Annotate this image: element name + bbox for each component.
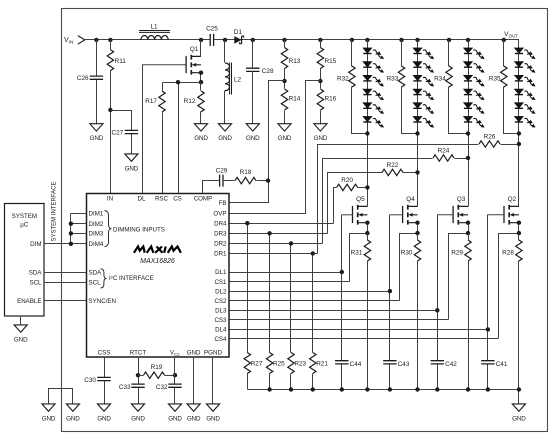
wire R11 to IN pin <box>110 40 112 194</box>
svg-text:C27: C27 <box>111 130 123 137</box>
wire R20 to drain and to DR4 <box>334 188 368 224</box>
resistor R20 (drain sense, from DR4) <box>337 177 358 191</box>
svg-text:R13: R13 <box>289 58 301 65</box>
inductor L1 <box>139 24 170 40</box>
svg-text:FB: FB <box>219 200 227 207</box>
junction dots Q2 source <box>517 221 521 225</box>
svg-text:OVP: OVP <box>213 210 226 217</box>
wire Q1 gate to DL pin <box>142 65 144 194</box>
svg-text:R17: R17 <box>145 98 157 105</box>
wire Q5 source and CS sense <box>350 223 368 282</box>
wire DL4 bus <box>229 329 488 331</box>
resistor R27 <box>244 353 263 374</box>
node RTCT junction <box>136 373 140 377</box>
resistor R14 <box>281 89 300 110</box>
wire DL2 bus <box>229 291 390 293</box>
svg-text:PGND: PGND <box>204 350 222 357</box>
svg-text:Q5: Q5 <box>356 196 365 203</box>
wire R15/R16 <box>320 40 322 124</box>
wire R32 leads <box>352 40 368 134</box>
System microcontroller box <box>5 204 45 317</box>
svg-text:COMP: COMP <box>194 196 213 203</box>
wire R22 to drain and to DR3 <box>328 173 418 234</box>
ground (left tap 1) <box>42 404 56 422</box>
svg-text:R19: R19 <box>151 364 163 371</box>
node DR junction <box>289 241 293 245</box>
ground (C30) <box>97 404 111 422</box>
capacitor C32 <box>156 384 182 391</box>
junction dots Q1 source <box>199 71 203 75</box>
LED string 3 (6 LEDs) <box>464 48 486 129</box>
svg-text:GND: GND <box>14 336 28 343</box>
node string 3 bottom junction <box>466 131 470 135</box>
svg-text:DL4: DL4 <box>215 327 227 334</box>
ground (C26) <box>90 124 104 142</box>
wire LED string 2 vertical <box>417 40 419 207</box>
wire R31 to ground rail <box>367 234 369 390</box>
resistor R23 <box>288 353 307 374</box>
svg-text:C33: C33 <box>119 384 131 391</box>
svg-text:DL2: DL2 <box>215 288 227 295</box>
wire VIN to C26 <box>96 40 98 124</box>
wire SCL <box>44 282 87 284</box>
svg-text:MAX16826: MAX16826 <box>140 258 175 265</box>
wire DL1 bus <box>229 272 342 274</box>
resistor R33 (string ballast) <box>387 66 405 87</box>
wire RTCT to C33 <box>138 357 140 404</box>
svg-text:SDA: SDA <box>29 270 43 277</box>
wire ground rail <box>248 390 519 404</box>
svg-text:R29: R29 <box>451 249 463 256</box>
svg-text:DR1: DR1 <box>214 251 227 258</box>
svg-text:DIM2: DIM2 <box>89 221 104 228</box>
svg-text:DL: DL <box>138 196 146 203</box>
capacitor C29 <box>216 168 228 187</box>
resistor R26 (drain sense, from DR1) <box>479 134 500 148</box>
svg-text:µC: µC <box>20 222 29 229</box>
svg-text:DIM1: DIM1 <box>89 210 104 217</box>
svg-text:R32: R32 <box>337 75 349 82</box>
wire DR branch at x=312.8 <box>312 254 314 390</box>
node string 1 bottom junction <box>365 131 369 135</box>
wire DR branch at x=247.3 <box>247 224 249 390</box>
wire R24 to drain and to DR2 <box>323 159 469 244</box>
wire Q1 drain to rail <box>200 40 202 57</box>
node OVP divider junction <box>318 79 322 83</box>
svg-text:I2C INTERFACE: I2C INTERFACE <box>109 275 154 282</box>
svg-text:DIMMING INPUTS: DIMMING INPUTS <box>113 226 165 233</box>
inductor L2 <box>225 63 242 95</box>
junction dots Q3 source <box>466 221 470 225</box>
capacitor C28 <box>246 68 274 75</box>
svg-text:IN: IN <box>107 196 113 203</box>
wire Q3 gate to DL3 and C42 <box>437 215 439 390</box>
svg-text:R27: R27 <box>251 361 263 368</box>
wire DR1 bus <box>229 253 318 255</box>
wire GND pin <box>193 357 195 404</box>
junction dots Q5 source <box>365 221 369 225</box>
wire LED string 4 vertical <box>518 48 520 207</box>
node DR junction <box>245 221 249 225</box>
wire DL3 bus <box>229 310 438 312</box>
svg-text:GND: GND <box>42 415 56 422</box>
wire Q3 source and CS sense <box>449 223 469 320</box>
wire R29 to ground rail <box>468 234 470 390</box>
wire CS3 bus <box>229 319 449 321</box>
node R22/drain junction <box>415 170 419 174</box>
transistor Q3 <box>437 196 468 224</box>
node DL3 gate junction <box>435 308 439 312</box>
capacitor C43 <box>383 361 410 368</box>
ground (C28) <box>246 124 260 142</box>
svg-text:C30: C30 <box>84 377 96 384</box>
svg-text:GND: GND <box>97 415 111 422</box>
transistor Q2 <box>488 196 519 224</box>
node R24/drain junction <box>466 156 470 160</box>
svg-text:CS2: CS2 <box>214 298 227 305</box>
svg-text:SYSTEM: SYSTEM <box>12 213 37 220</box>
transistor Q5 <box>342 196 368 224</box>
wire COMP network <box>203 181 269 194</box>
svg-text:L1: L1 <box>150 24 158 31</box>
wire L2 <box>224 40 226 124</box>
node R20/drain junction <box>365 185 369 189</box>
svg-text:GND: GND <box>131 415 145 422</box>
svg-text:Q3: Q3 <box>457 196 466 203</box>
wire R12 to ground <box>200 83 202 124</box>
node VIN <box>64 36 85 45</box>
wire CS2 bus <box>229 300 400 302</box>
svg-text:R26: R26 <box>484 134 496 141</box>
capacitor C27 <box>111 130 138 137</box>
svg-text:GND: GND <box>206 415 220 422</box>
resistor R19 <box>144 364 165 378</box>
svg-text:SDA: SDA <box>89 270 103 277</box>
diode D1 <box>234 29 244 44</box>
wire R13/R14 <box>284 40 286 124</box>
ground (C27) <box>125 154 139 172</box>
svg-text:SYNC/EN: SYNC/EN <box>89 298 117 305</box>
resistor R11 <box>107 50 126 71</box>
capacitor C41 <box>481 361 508 368</box>
capacitor C30 <box>84 377 110 384</box>
svg-text:GND: GND <box>187 350 201 357</box>
svg-text:CS: CS <box>173 196 182 203</box>
svg-text:R12: R12 <box>184 98 196 105</box>
svg-text:D1: D1 <box>234 29 243 36</box>
resistor R12 <box>184 91 205 112</box>
LED string 4 (6 LEDs) <box>514 48 536 129</box>
svg-text:CS4: CS4 <box>214 336 227 343</box>
svg-text:GND: GND <box>314 135 328 142</box>
svg-text:R21: R21 <box>316 361 328 368</box>
junction dots on ground rail <box>267 387 521 391</box>
svg-text:GND: GND <box>218 135 232 142</box>
svg-text:C32: C32 <box>156 384 168 391</box>
ground (R16) <box>314 124 328 142</box>
LED string 1 (6 LEDs) <box>363 48 385 129</box>
node string 4 bottom junction <box>517 131 521 135</box>
wire Q2 source and CS sense <box>499 223 519 339</box>
junction dots Q4 source <box>415 221 419 225</box>
svg-text:GND: GND <box>187 415 201 422</box>
resistor R25 <box>266 353 285 374</box>
wire Q4 source and CS sense <box>400 223 418 301</box>
node DL4 gate junction <box>486 327 490 331</box>
svg-text:R28: R28 <box>502 249 514 256</box>
capacitor C42 <box>431 361 458 368</box>
svg-text:R23: R23 <box>294 361 306 368</box>
svg-text:ENABLE: ENABLE <box>17 298 41 305</box>
capacitor C25 <box>206 26 218 46</box>
svg-text:R18: R18 <box>240 169 252 176</box>
svg-text:R20: R20 <box>341 177 353 184</box>
svg-text:DL3: DL3 <box>215 308 227 315</box>
svg-text:GND: GND <box>90 135 104 142</box>
svg-text:RSC: RSC <box>155 196 169 203</box>
node FB divider junction <box>282 79 286 83</box>
svg-text:C41: C41 <box>496 361 508 368</box>
svg-text:DIM4: DIM4 <box>89 241 104 248</box>
ground (R12) <box>194 124 208 142</box>
wire R26 to drain and to DR1 <box>318 145 519 254</box>
wire DR4 bus <box>229 223 334 225</box>
resistor R17 <box>145 91 165 112</box>
ground (R14) <box>278 124 292 142</box>
svg-text:GND: GND <box>194 135 208 142</box>
wire uC ground <box>20 316 22 325</box>
wire R35 leads <box>504 40 519 134</box>
svg-text:DIM3: DIM3 <box>89 231 104 238</box>
resistor R21 <box>310 353 329 374</box>
node C29/R18 to FB junction <box>266 178 270 182</box>
svg-text:C29: C29 <box>216 168 228 175</box>
wire DR3 bus <box>229 233 328 235</box>
resistor R28 (current sense) <box>502 240 522 261</box>
wire chassis ground taps <box>49 389 73 404</box>
wire CS4 bus <box>229 338 499 340</box>
wire DIM bus <box>44 214 87 244</box>
wire Q2 gate to DL4 and C41 <box>487 215 489 390</box>
ground (left tap 2) <box>66 404 80 422</box>
svg-text:L2: L2 <box>234 77 242 84</box>
junction dots DIM bus <box>69 222 73 226</box>
resistor R15 <box>317 48 336 69</box>
svg-text:GND: GND <box>66 415 80 422</box>
svg-text:GND: GND <box>512 415 526 422</box>
wire LED string 1 vertical <box>367 40 369 207</box>
svg-text:RTCT: RTCT <box>130 350 147 357</box>
node DL1 gate junction <box>340 270 344 274</box>
svg-text:DIM: DIM <box>30 241 41 248</box>
svg-text:DR4: DR4 <box>214 220 227 227</box>
wire ENABLE to SYNC/EN <box>44 300 87 302</box>
wire VCC to C32 <box>174 357 176 404</box>
svg-text:C44: C44 <box>350 361 362 368</box>
ground (uC) <box>14 325 28 343</box>
svg-text:GND: GND <box>278 135 292 142</box>
transistor Q1 <box>142 46 201 74</box>
junction dots on top rail <box>94 38 506 42</box>
node DR junction <box>267 231 271 235</box>
wire CSS to C30 <box>104 357 106 404</box>
svg-text:R16: R16 <box>325 95 337 102</box>
wire DR2 bus <box>229 243 323 245</box>
wire R34 leads <box>449 40 469 134</box>
wire to C27 <box>111 111 132 154</box>
svg-text:R11: R11 <box>115 58 127 65</box>
wire Q1 source node <box>163 73 201 194</box>
node string 2 bottom junction <box>415 131 419 135</box>
resistor R18 <box>235 169 256 184</box>
wire FB sense <box>229 81 285 203</box>
resistor R32 (string ballast) <box>337 66 355 87</box>
node DL2 gate junction <box>388 289 392 293</box>
svg-text:SCL: SCL <box>29 280 42 287</box>
node R19/VCC junction <box>173 373 177 377</box>
resistor R22 (drain sense, from DR3) <box>382 162 403 176</box>
capacitor C33 <box>119 384 145 391</box>
svg-text:C28: C28 <box>262 68 274 75</box>
node DR junction <box>311 251 315 255</box>
wire LED string 3 vertical <box>468 40 470 207</box>
svg-text:R25: R25 <box>273 361 285 368</box>
wire R17 to RSC pin <box>162 83 164 194</box>
svg-text:R30: R30 <box>401 249 413 256</box>
wire OVP sense <box>229 81 321 214</box>
wire R30 to ground rail <box>417 234 419 390</box>
svg-text:R24: R24 <box>438 148 450 155</box>
svg-text:R14: R14 <box>289 95 301 102</box>
resistor R35 (string ballast) <box>489 66 507 87</box>
node IN/C27 junction <box>108 108 112 112</box>
resistor R31 (current sense) <box>351 240 371 261</box>
svg-text:Q4: Q4 <box>406 196 415 203</box>
wire PGND pin <box>212 357 214 404</box>
ground (rail) <box>512 404 526 422</box>
transistor Q4 <box>390 196 418 224</box>
svg-text:C42: C42 <box>445 361 457 368</box>
resistor R24 (drain sense, from DR2) <box>433 148 454 162</box>
wire Q5 gate to DL1 and C44 <box>341 215 343 390</box>
ground (C32) <box>168 404 182 422</box>
resistor R29 (current sense) <box>451 240 471 261</box>
svg-text:CSS: CSS <box>98 350 111 357</box>
svg-text:Q1: Q1 <box>190 46 199 53</box>
resistor R30 (current sense) <box>401 240 421 261</box>
svg-text:GND: GND <box>125 165 139 172</box>
ground (GND pin) <box>187 404 201 422</box>
wire DR branch at x=291.0 <box>290 244 292 390</box>
svg-text:R22: R22 <box>387 162 399 169</box>
ground (C33) <box>131 404 145 422</box>
resistor R16 <box>317 89 336 110</box>
ground (PGND pin) <box>206 404 220 422</box>
svg-text:GND: GND <box>168 415 182 422</box>
wire VIN top rail to VOUT <box>85 40 519 48</box>
svg-text:CS3: CS3 <box>214 317 227 324</box>
wire R33 leads <box>402 40 418 134</box>
resistor R13 <box>281 48 300 69</box>
svg-text:R34: R34 <box>434 75 446 82</box>
svg-text:R31: R31 <box>351 249 363 256</box>
op-amp U1 MAX16826 LED driver IC <box>87 194 230 358</box>
resistor R34 (string ballast) <box>434 66 452 87</box>
svg-text:R15: R15 <box>325 58 337 65</box>
svg-text:DL1: DL1 <box>215 269 227 276</box>
wire R28 to ground rail <box>518 234 520 390</box>
svg-text:SCL: SCL <box>89 280 102 287</box>
node R26/drain junction <box>517 142 521 146</box>
svg-text:GND: GND <box>246 135 260 142</box>
svg-text:DR3: DR3 <box>214 231 227 238</box>
capacitor C26 <box>77 75 103 82</box>
svg-text:R33: R33 <box>387 75 399 82</box>
svg-text:Q2: Q2 <box>508 196 517 203</box>
wire DR branch at x=269.6 <box>269 234 271 390</box>
svg-text:R35: R35 <box>489 75 501 82</box>
wire Q4 gate to DL2 and C43 <box>389 215 391 390</box>
svg-text:CS1: CS1 <box>214 279 227 286</box>
wire C28 <box>252 40 254 124</box>
wire SDA <box>44 272 87 274</box>
ground (L2) <box>218 124 232 142</box>
wire CS1 bus <box>229 281 350 283</box>
svg-text:SYSTEM INTERFACE: SYSTEM INTERFACE <box>52 181 58 241</box>
svg-text:C43: C43 <box>398 361 410 368</box>
capacitor C44 <box>335 361 362 368</box>
svg-text:DR2: DR2 <box>214 241 227 248</box>
wire R19 <box>139 375 175 377</box>
LED string 2 (6 LEDs) <box>413 48 435 129</box>
svg-text:C26: C26 <box>77 75 89 82</box>
svg-text:C25: C25 <box>206 26 218 33</box>
